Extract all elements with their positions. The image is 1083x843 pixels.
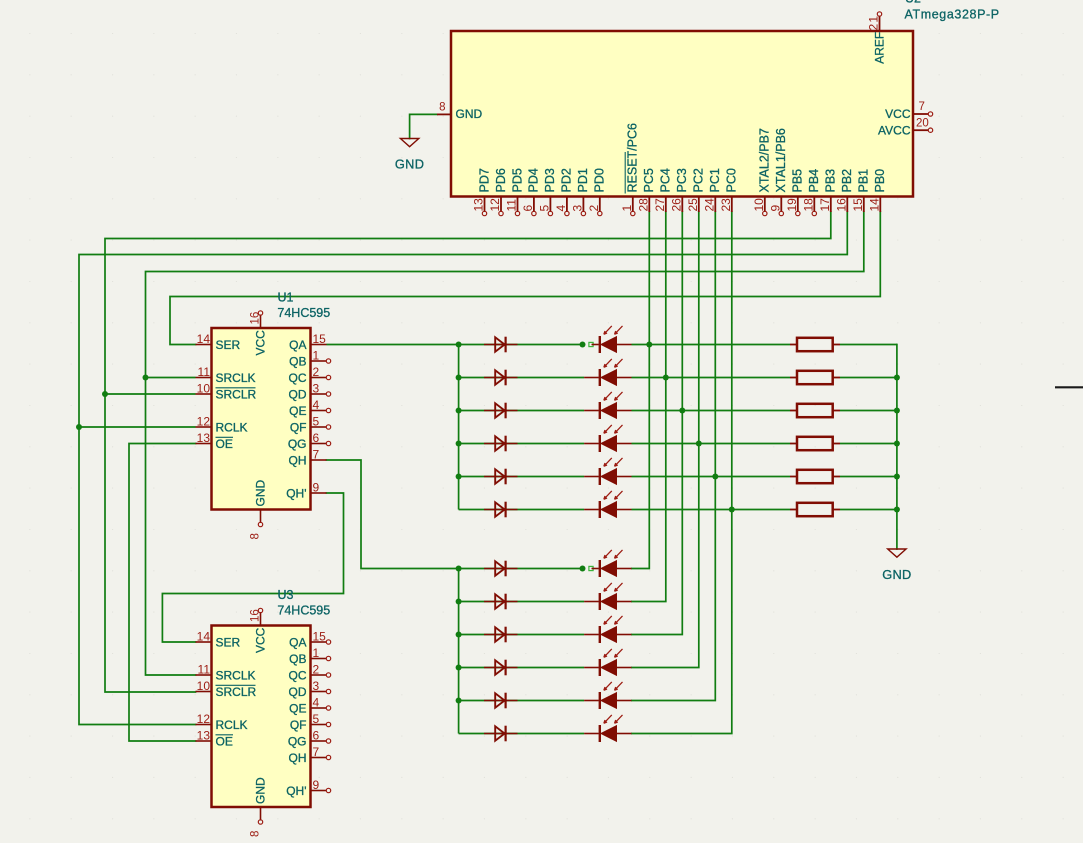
pin 16 PB2 of U2 xyxy=(834,169,854,212)
pin 4 QE of U1 xyxy=(289,398,331,418)
svg-text:QC: QC xyxy=(289,371,307,385)
svg-text:13: 13 xyxy=(472,198,486,212)
pin 10 XTAL2/PB7 of U2 xyxy=(752,128,772,216)
pin 9 QH' of U3 xyxy=(286,778,330,798)
svg-text:PC5: PC5 xyxy=(642,168,656,192)
wire upper row 3 xyxy=(459,410,584,412)
LED lower row 2 xyxy=(584,583,631,610)
svg-text:PD2: PD2 xyxy=(560,168,574,192)
pin 2 QC of U3 xyxy=(289,663,331,683)
svg-text:1: 1 xyxy=(313,646,320,660)
wire upper anode bus xyxy=(458,345,460,510)
wire column PC4 xyxy=(632,212,666,602)
svg-text:PC1: PC1 xyxy=(708,168,722,192)
pin 2 PD0 of U2 xyxy=(587,168,607,216)
pin 1 QB of U3 xyxy=(289,646,331,666)
svg-text:5: 5 xyxy=(313,415,320,429)
svg-text:AVCC: AVCC xyxy=(878,123,911,137)
LED lower row 1 xyxy=(592,550,632,577)
pin 24 PC1 of U2 xyxy=(702,168,722,212)
svg-text:QB: QB xyxy=(289,652,306,666)
LED lower row 6 xyxy=(584,715,631,742)
svg-text:GND: GND xyxy=(253,777,267,804)
svg-text:VCC: VCC xyxy=(253,627,267,653)
pin 9 QH' of U1 xyxy=(286,481,326,501)
diode upper row 2 xyxy=(484,370,518,386)
pin 14 SER of U3 xyxy=(196,630,241,650)
svg-text:QA: QA xyxy=(289,338,306,352)
pin 16 VCC of U3 xyxy=(250,608,268,653)
svg-text:20: 20 xyxy=(916,118,929,130)
pin 7 VCC of U2 xyxy=(885,101,933,121)
svg-text:14: 14 xyxy=(197,630,211,644)
svg-text:PB5: PB5 xyxy=(791,169,805,193)
svg-text:11: 11 xyxy=(198,663,211,677)
svg-text:25: 25 xyxy=(686,198,700,212)
svg-text:12: 12 xyxy=(197,415,211,429)
svg-text:10: 10 xyxy=(197,382,211,396)
svg-text:OE: OE xyxy=(216,734,233,748)
junction left verticals xyxy=(143,375,149,381)
junction lower bus xyxy=(456,566,462,572)
svg-text:PB2: PB2 xyxy=(840,169,854,193)
svg-text:PD7: PD7 xyxy=(477,168,491,192)
wire column PC5 xyxy=(632,212,649,569)
wire lower row 3 xyxy=(459,634,584,636)
pin 12 RCLK of U3 xyxy=(196,712,248,732)
svg-text:11: 11 xyxy=(505,199,519,212)
pin 26 PC3 of U2 xyxy=(669,168,689,212)
svg-text:GND: GND xyxy=(253,480,267,507)
pin 18 PB4 of U2 xyxy=(801,169,821,216)
svg-text:SER: SER xyxy=(216,338,241,352)
svg-text:XTAL1/PB6: XTAL1/PB6 xyxy=(774,128,788,192)
svg-text:8: 8 xyxy=(250,533,262,539)
svg-text:74HC595: 74HC595 xyxy=(277,306,330,320)
svg-text:28: 28 xyxy=(636,198,650,212)
svg-text:9: 9 xyxy=(313,481,320,495)
svg-text:16: 16 xyxy=(834,198,848,212)
svg-text:PB1: PB1 xyxy=(857,169,871,193)
pin 5 QF of U1 xyxy=(290,415,331,435)
wire resistor return bus to GND xyxy=(896,345,898,550)
svg-text:27: 27 xyxy=(653,198,667,212)
svg-text:16: 16 xyxy=(250,312,262,325)
diode lower row 6 xyxy=(484,726,518,742)
wire QH' U1 to SER U3 xyxy=(162,493,343,642)
pin 6 PD4 of U2 xyxy=(521,168,541,216)
LED lower row 3 xyxy=(584,616,631,643)
wire upper row 6 xyxy=(459,509,584,511)
diode lower row 4 xyxy=(484,660,518,676)
svg-text:GND: GND xyxy=(456,107,483,121)
resistor row 4 xyxy=(790,437,840,450)
ic U3 74HC595 body xyxy=(212,626,311,808)
svg-text:PC4: PC4 xyxy=(659,168,673,192)
pin 3 QD of U1 xyxy=(289,382,331,402)
LED upper row 3 xyxy=(584,392,631,419)
svg-text:QH': QH' xyxy=(286,486,306,500)
svg-text:GND: GND xyxy=(882,567,911,582)
svg-text:QE: QE xyxy=(289,404,306,418)
wire lower row 6 xyxy=(459,733,584,735)
svg-text:QG: QG xyxy=(288,734,307,748)
svg-text:12: 12 xyxy=(197,712,211,726)
pin 15 QA of U1 xyxy=(289,332,326,352)
wire upper row 1 xyxy=(327,344,583,346)
svg-text:4: 4 xyxy=(313,696,320,710)
pin 12 RCLK of U1 xyxy=(196,415,248,435)
svg-text:6: 6 xyxy=(313,431,320,445)
svg-text:PB4: PB4 xyxy=(807,169,821,193)
pin 4 QE of U3 xyxy=(289,696,331,716)
junction dangling row1 upper xyxy=(580,342,586,348)
svg-text:VCC: VCC xyxy=(885,107,911,121)
svg-text:PC3: PC3 xyxy=(675,168,689,192)
svg-text:26: 26 xyxy=(669,198,683,212)
LED lower row 4 xyxy=(584,649,631,676)
pin 10 SRCLR of U1 xyxy=(196,382,257,402)
svg-text:6: 6 xyxy=(521,205,535,212)
pin 3 QD of U3 xyxy=(289,679,331,699)
pin 1 RESET/PC6 of U2 xyxy=(620,123,640,216)
svg-text:QH': QH' xyxy=(286,784,306,798)
junction resistor bus xyxy=(894,375,900,381)
svg-text:XTAL2/PB7: XTAL2/PB7 xyxy=(758,128,772,192)
svg-text:QH: QH xyxy=(289,453,307,467)
wire QH U1 to lower row bus xyxy=(327,460,459,569)
unrelated clipped wire at right edge xyxy=(1055,386,1083,388)
wire column PC2 xyxy=(632,212,699,668)
junction columns at upper rows xyxy=(646,342,652,348)
svg-text:QF: QF xyxy=(290,420,307,434)
svg-text:7: 7 xyxy=(919,101,925,113)
svg-text:8: 8 xyxy=(439,102,445,114)
svg-text:13: 13 xyxy=(197,431,211,445)
LED upper row 5 xyxy=(584,458,631,485)
svg-text:AREF: AREF xyxy=(872,32,886,64)
svg-text:RCLK: RCLK xyxy=(216,718,248,732)
diode upper row 3 xyxy=(484,403,518,419)
svg-text:5: 5 xyxy=(537,205,551,212)
pin 15 PB1 of U2 xyxy=(851,169,871,212)
diode upper row 6 xyxy=(484,502,518,518)
pin 23 PC0 of U2 xyxy=(719,168,739,212)
svg-text:10: 10 xyxy=(752,198,766,212)
junction upper bus xyxy=(456,342,462,348)
svg-text:ATmega328P-P: ATmega328P-P xyxy=(905,7,1000,21)
diode lower row 5 xyxy=(484,693,518,709)
wire branch SRCLR U1 xyxy=(105,393,196,395)
pin 17 PB3 of U2 xyxy=(818,169,838,212)
svg-text:15: 15 xyxy=(851,198,865,212)
svg-text:RESET/PC6: RESET/PC6 xyxy=(626,123,640,193)
diode lower row 2 xyxy=(484,594,518,610)
pin 27 PC4 of U2 xyxy=(653,168,673,212)
svg-text:3: 3 xyxy=(313,679,320,693)
svg-text:QD: QD xyxy=(289,685,307,699)
pin 5 QF of U3 xyxy=(290,712,331,732)
svg-text:23: 23 xyxy=(719,198,733,212)
LED upper row 2 xyxy=(584,359,631,386)
ic U1 74HC595 body xyxy=(212,328,311,510)
pin 25 PC2 of U2 xyxy=(686,168,706,212)
svg-text:3: 3 xyxy=(313,382,320,396)
svg-text:SRCLK: SRCLK xyxy=(216,668,256,682)
pin 11 SRCLK of U1 xyxy=(196,365,256,385)
pin 11 SRCLK of U3 xyxy=(196,663,256,683)
svg-text:11: 11 xyxy=(198,365,211,379)
wire branch RCLK U1 xyxy=(79,426,196,428)
wire column PC1 xyxy=(632,212,715,701)
svg-text:PB3: PB3 xyxy=(824,169,838,193)
svg-text:14: 14 xyxy=(867,198,881,212)
diode upper row 5 xyxy=(484,469,518,485)
wire upper row 5 xyxy=(459,476,584,478)
svg-text:3: 3 xyxy=(570,205,584,212)
wire column PC3 xyxy=(632,212,682,635)
junction dangling row1 lower xyxy=(580,566,586,572)
pin 16 VCC of U1 xyxy=(250,311,268,356)
wire branch SRCLK U1 xyxy=(146,377,196,379)
wire lower anode bus xyxy=(458,569,460,734)
svg-text:GND: GND xyxy=(395,156,424,171)
svg-text:9: 9 xyxy=(313,778,320,792)
pin 20 AVCC of U2 xyxy=(878,118,933,138)
LED upper row 4 xyxy=(584,425,631,452)
svg-text:2: 2 xyxy=(587,205,601,212)
pin 5 PD3 of U2 xyxy=(537,168,557,216)
wire lower row 5 xyxy=(459,700,584,702)
svg-text:8: 8 xyxy=(250,831,262,837)
svg-text:15: 15 xyxy=(313,332,327,346)
svg-text:SRCLR: SRCLR xyxy=(216,685,257,699)
svg-text:6: 6 xyxy=(313,729,320,743)
svg-text:RCLK: RCLK xyxy=(216,420,248,434)
wire PB0 to SER U1 xyxy=(170,212,880,345)
pin 2 QC of U1 xyxy=(289,365,331,385)
svg-text:PC2: PC2 xyxy=(692,168,706,192)
svg-text:VCC: VCC xyxy=(253,330,267,356)
wire GND net from U2 pin 8 xyxy=(410,114,437,138)
svg-text:QF: QF xyxy=(290,718,307,732)
svg-text:SRCLK: SRCLK xyxy=(216,371,256,385)
svg-text:U2: U2 xyxy=(905,0,921,6)
svg-text:24: 24 xyxy=(702,198,716,212)
svg-text:PB0: PB0 xyxy=(873,169,887,193)
svg-text:13: 13 xyxy=(197,729,211,743)
wire upper row 4 xyxy=(459,443,584,445)
resistor row 2 xyxy=(790,371,840,384)
pin 7 QH of U1 xyxy=(289,448,327,468)
svg-text:SRCLR: SRCLR xyxy=(216,387,257,401)
svg-text:QB: QB xyxy=(289,354,306,368)
svg-text:17: 17 xyxy=(818,198,832,212)
svg-text:10: 10 xyxy=(197,679,211,693)
svg-text:74HC595: 74HC595 xyxy=(277,604,330,618)
pin 13 PD7 of U2 xyxy=(472,168,492,216)
pin 4 PD2 of U2 xyxy=(554,168,574,216)
svg-text:QC: QC xyxy=(289,668,307,682)
svg-text:2: 2 xyxy=(313,365,320,379)
wire upper row 2 xyxy=(459,377,584,379)
svg-text:7: 7 xyxy=(313,745,320,759)
wire lower row 1 xyxy=(459,568,583,570)
svg-text:U1: U1 xyxy=(278,291,294,305)
pin 14 PB0 of U2 xyxy=(867,169,887,212)
svg-text:9: 9 xyxy=(768,205,782,212)
diode upper row 4 xyxy=(484,436,518,452)
svg-text:14: 14 xyxy=(197,332,211,346)
LED upper row 1 xyxy=(592,326,632,353)
ic U2 ATmega328P-P body xyxy=(451,31,913,197)
ground resistor return xyxy=(882,549,911,582)
pin 13 OE of U3 xyxy=(196,729,234,749)
wire PB2 to RCLK bus xyxy=(79,212,847,725)
pin 1 QB of U1 xyxy=(289,349,331,369)
pin 3 PD1 of U2 xyxy=(570,168,590,216)
pin 28 PC5 of U2 xyxy=(636,168,656,212)
svg-text:PD1: PD1 xyxy=(576,168,590,192)
pin 21 AREF of U2 xyxy=(867,12,887,64)
svg-text:PC0: PC0 xyxy=(725,168,739,192)
LED upper row 6 xyxy=(584,491,631,518)
ground near U2 pin8 xyxy=(395,139,424,172)
pin 7 QH of U3 xyxy=(289,745,331,765)
svg-text:OE: OE xyxy=(216,437,233,451)
svg-text:QH: QH xyxy=(289,751,307,765)
pin 10 SRCLR of U3 xyxy=(196,679,257,699)
pin 8 GND of U1 xyxy=(250,480,268,540)
svg-text:12: 12 xyxy=(488,198,502,212)
svg-text:4: 4 xyxy=(554,205,568,212)
pin 19 PB5 of U2 xyxy=(785,169,805,216)
pin 14 SER of U1 xyxy=(196,332,241,352)
svg-text:16: 16 xyxy=(250,609,262,622)
svg-text:U3: U3 xyxy=(278,588,294,602)
svg-text:PD0: PD0 xyxy=(593,168,607,192)
svg-text:18: 18 xyxy=(801,198,815,212)
resistor row 5 xyxy=(790,470,840,483)
wire OE U1 to OE U3 xyxy=(129,444,196,742)
svg-text:21: 21 xyxy=(867,15,881,31)
svg-text:PD4: PD4 xyxy=(527,168,541,192)
pin 6 QG of U1 xyxy=(288,431,331,451)
svg-text:5: 5 xyxy=(313,712,320,726)
pin 9 XTAL1/PB6 of U2 xyxy=(768,128,788,216)
pin 13 OE of U1 xyxy=(196,431,234,451)
svg-text:4: 4 xyxy=(313,398,320,412)
resistor row 6 xyxy=(790,503,840,516)
svg-text:PD5: PD5 xyxy=(510,168,524,192)
svg-text:19: 19 xyxy=(785,198,799,212)
diode lower row 1 xyxy=(484,561,518,577)
pin 12 PD6 of U2 xyxy=(488,168,508,216)
wire PB3 to SRCLR bus xyxy=(105,212,831,692)
svg-text:QA: QA xyxy=(289,635,306,649)
svg-text:PD6: PD6 xyxy=(494,168,508,192)
svg-text:15: 15 xyxy=(313,630,327,644)
pin 6 QG of U3 xyxy=(288,729,331,749)
wire PB1 to SRCLK bus xyxy=(146,212,864,675)
svg-text:QE: QE xyxy=(289,701,306,715)
resistor row 3 xyxy=(790,404,840,417)
svg-text:1: 1 xyxy=(620,205,634,212)
pin 8 GND of U3 xyxy=(250,777,268,837)
pin 8 GND of U2 xyxy=(437,102,483,122)
wire column PC0 xyxy=(632,212,732,734)
svg-text:PD3: PD3 xyxy=(543,168,557,192)
pin 15 QA of U3 xyxy=(289,630,331,650)
svg-text:7: 7 xyxy=(313,448,320,462)
svg-text:QD: QD xyxy=(289,387,307,401)
svg-text:2: 2 xyxy=(313,663,320,677)
diode upper row 1 xyxy=(484,337,518,353)
wire lower row 2 xyxy=(459,601,584,603)
svg-text:SER: SER xyxy=(216,635,241,649)
LED lower row 5 xyxy=(584,682,631,709)
svg-text:QG: QG xyxy=(288,437,307,451)
wire lower row 4 xyxy=(459,667,584,669)
pin 11 PD5 of U2 xyxy=(505,168,525,216)
svg-text:1: 1 xyxy=(313,349,320,363)
resistor row 1 xyxy=(790,338,840,351)
diode lower row 3 xyxy=(484,627,518,643)
